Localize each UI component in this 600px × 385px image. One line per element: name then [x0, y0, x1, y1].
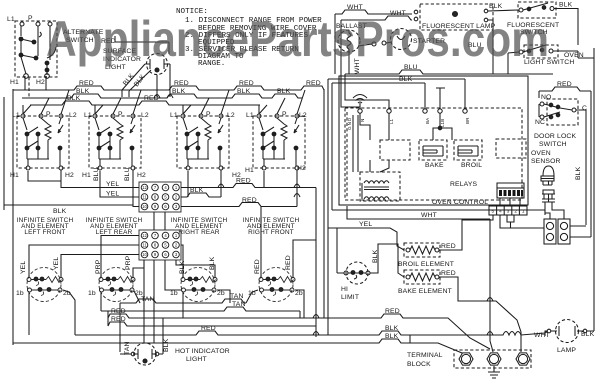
svg-text:RED: RED: [239, 80, 254, 87]
labels E2: [88, 255, 143, 297]
infinite switch SW4 right front: [253, 114, 305, 170]
svg-text:BR: BR: [465, 117, 470, 124]
wire C to right rail: [576, 110, 586, 225]
svg-text:RED: RED: [79, 80, 94, 87]
svg-text:BLK: BLK: [67, 95, 81, 102]
oven sensor probe: [541, 166, 555, 202]
door lock switch contacts: [539, 99, 578, 125]
svg-text:BROIL: BROIL: [461, 162, 482, 169]
wire WHT under board: [332, 210, 545, 219]
label BLK hot light: [163, 338, 170, 352]
svg-text:L2: L2: [299, 112, 307, 119]
svg-text:LAMP: LAMP: [557, 347, 576, 354]
wire BLU bus: [345, 64, 553, 74]
svg-text:BA: BA: [425, 117, 430, 124]
labels E3: [170, 256, 225, 297]
svg-text:YEL: YEL: [359, 221, 372, 228]
svg-text:BLK: BLK: [190, 187, 204, 194]
svg-text:P: P: [118, 111, 123, 118]
wire ballast to starter: [358, 41, 392, 46]
svg-text:BLK: BLK: [53, 208, 67, 215]
svg-text:BLK: BLK: [237, 88, 251, 95]
wire channel y311: [101, 260, 300, 318]
label alternate switch: [63, 29, 104, 44]
svg-text:BLK: BLK: [172, 88, 186, 95]
svg-text:P: P: [282, 111, 287, 118]
svg-text:RED: RED: [306, 80, 321, 87]
wire E1 1b drop: [28, 292, 30, 335]
notice text block: [176, 8, 322, 68]
svg-text:H2: H2: [36, 79, 45, 86]
labels SW1 terminals: [10, 111, 77, 179]
element E2 left rear: [99, 268, 135, 302]
fluorescent lamp F1 dashed box: [420, 4, 496, 30]
wire WHT drop to board: [341, 79, 360, 109]
svg-text:P: P: [206, 111, 211, 118]
wire BLK lower bus to CN1: [4, 205, 133, 215]
svg-text:H1: H1: [245, 167, 254, 174]
connector grid CN2: [139, 230, 181, 260]
alternate switch terminal H1: [10, 74, 28, 86]
svg-text:2: 2: [514, 209, 517, 214]
svg-text:RED: RED: [236, 178, 251, 185]
svg-text:YEL: YEL: [106, 191, 119, 198]
wire sensor to blocks: [545, 202, 564, 219]
board terminal L1B: [438, 109, 445, 127]
wire WHT second: [341, 10, 412, 79]
label broil element: [398, 261, 454, 268]
svg-text:RED: RED: [285, 255, 292, 270]
wire SW4 bus drops: [259, 90, 305, 114]
broil relay K2: [454, 140, 482, 169]
wire E1 left riser YEL: [29, 245, 139, 278]
label surface indicator light: [103, 48, 141, 71]
oven lamp: [545, 320, 594, 343]
svg-text:LIGHT: LIGHT: [186, 356, 207, 363]
label fluorescent switch: [507, 22, 559, 36]
svg-text:BLK: BLK: [575, 166, 582, 180]
wire SW1 H1 jog: [28, 171, 61, 181]
wire E3 left riser BLK: [181, 245, 183, 278]
wire SW3 H1 drop: [187, 171, 189, 197]
svg-text:L1: L1: [170, 112, 178, 119]
svg-text:BLK: BLK: [385, 325, 399, 332]
hot indicator light: [120, 318, 163, 365]
svg-text:1: 1: [522, 209, 525, 214]
svg-text:GND: GND: [347, 117, 352, 130]
svg-text:YEL: YEL: [106, 181, 119, 188]
svg-text:P: P: [28, 15, 33, 22]
transformer T1: [360, 172, 400, 201]
oven light switch dashed box: [524, 45, 558, 58]
connector block CB2: [558, 219, 570, 244]
svg-text:BLK: BLK: [163, 338, 170, 352]
svg-text:NC: NC: [535, 119, 545, 126]
svg-text:YEL: YEL: [20, 261, 27, 274]
svg-text:HI: HI: [341, 286, 348, 293]
labels SW2 terminals: [82, 111, 149, 179]
svg-text:L2: L2: [69, 112, 77, 119]
board terminal L1: [387, 109, 394, 124]
label infinite switch right front: [243, 217, 300, 236]
terminal block lug 2: [487, 353, 501, 365]
svg-text:L2: L2: [141, 112, 149, 119]
oven control dashed box: [345, 108, 522, 200]
starter: [391, 29, 446, 50]
label terminal block: [407, 352, 443, 368]
wire fluorescent switch to right rail BLK: [554, 2, 578, 46]
board terminal N: [358, 109, 365, 122]
wire E1 2b drop: [63, 290, 75, 335]
infinite switch SW1 left front: [17, 114, 69, 170]
wire SW3 bus drops: [183, 90, 229, 114]
label BLK diagonal 1: [122, 72, 136, 87]
wire E2 right riser PRP: [133, 260, 144, 278]
wire RED bus row 1: [13, 80, 324, 90]
label red wire: [101, 38, 116, 45]
svg-text:3: 3: [507, 209, 510, 214]
wire indicator drops join bus: [122, 90, 170, 97]
svg-text:SENSOR: SENSOR: [531, 158, 561, 165]
wire blocks to right rail: [570, 219, 591, 237]
wire feeds into terminal block: [490, 341, 493, 352]
wire SW1 bus drops: [23, 90, 69, 114]
svg-text:H1: H1: [10, 172, 19, 179]
wire BLU drop to L1: [345, 74, 389, 109]
svg-text:H1: H1: [82, 172, 91, 179]
svg-text:H1: H1: [10, 79, 19, 86]
alternate switch terminal L1: [7, 16, 24, 26]
board terminal BA: [423, 109, 430, 124]
svg-text:LEFT FRONT: LEFT FRONT: [24, 229, 65, 236]
svg-text:LEFT REAR: LEFT REAR: [96, 229, 133, 236]
wire TAN channel: [120, 260, 246, 355]
svg-text:BLK: BLK: [372, 249, 379, 263]
label infinite switch left front: [17, 217, 74, 236]
svg-text:BROIL ELEMENT: BROIL ELEMENT: [398, 261, 454, 268]
svg-text:BLU: BLU: [124, 167, 131, 181]
wire SW4 H1 drop: [263, 171, 265, 188]
wire YEL under board: [347, 206, 490, 341]
wire RED channel y318: [108, 308, 490, 349]
svg-text:H2: H2: [297, 165, 306, 172]
wire L1B junction: [433, 113, 452, 140]
wire left rail: [4, 89, 13, 345]
wire edge connector to blocks: [500, 198, 544, 228]
label door lock switch: [534, 133, 576, 148]
svg-text:WHT: WHT: [347, 4, 363, 11]
svg-text:L1: L1: [7, 16, 15, 23]
oven control board outline: [339, 76, 528, 205]
svg-text:TERMINAL: TERMINAL: [407, 352, 443, 359]
wire BLK bus row 2: [22, 88, 302, 98]
wire right rail down to lamp: [578, 48, 594, 331]
svg-text:DOOR LOCK: DOOR LOCK: [534, 133, 576, 140]
board terminal BR: [463, 109, 470, 124]
label hot indicator light: [175, 348, 230, 363]
label WHT vertical: [354, 58, 361, 74]
svg-text:OVEN: OVEN: [531, 150, 551, 157]
wire RED riser right: [323, 89, 325, 318]
broil element R1: [404, 243, 456, 257]
connector grid CN1: [139, 182, 181, 212]
element E4 right front: [259, 268, 295, 302]
label oven light switch: [524, 52, 584, 66]
connector block CB1: [544, 219, 556, 244]
svg-text:YEL: YEL: [53, 257, 60, 270]
wire CN1 row3 to SW4 H2 RED: [181, 170, 297, 207]
wire CN1 row2 to SW3 H2 BLK: [181, 170, 221, 197]
wire lamp to fluorescent switch BLK: [488, 3, 518, 11]
wire E2 1b drop: [100, 292, 102, 311]
svg-text:OVEN CONTROL: OVEN CONTROL: [432, 199, 488, 206]
svg-text:5: 5: [492, 209, 495, 214]
wire to broil element: [328, 228, 404, 250]
svg-text:PRP: PRP: [125, 255, 132, 270]
terminal block lug 1: [459, 353, 473, 365]
svg-text:BLU: BLU: [93, 167, 100, 181]
svg-text:BLK: BLK: [559, 2, 573, 9]
svg-text:RED: RED: [242, 197, 257, 204]
wire grid2 column drops to bottom bus: [144, 292, 183, 343]
label oven sensor: [531, 150, 561, 165]
wire indicator light right lead: [115, 36, 170, 90]
svg-text:BLK: BLK: [489, 3, 503, 10]
svg-text:BLK: BLK: [277, 88, 291, 95]
wire E3 right riser BLK: [176, 260, 215, 278]
alternate switch dashed box: [15, 21, 57, 77]
svg-text:RED: RED: [557, 81, 572, 88]
wire oven light switch leads: [508, 51, 578, 74]
element E1 left front: [27, 268, 63, 302]
svg-text:RED: RED: [385, 308, 400, 315]
svg-text:NO: NO: [541, 94, 552, 101]
bake element R2: [404, 270, 456, 284]
labels E4: [248, 255, 303, 297]
svg-text:WHT: WHT: [534, 332, 550, 339]
svg-text:RED: RED: [201, 325, 216, 332]
label OVEN CONTROL: [432, 199, 488, 206]
svg-text:WHT: WHT: [421, 212, 437, 219]
svg-text:RED: RED: [174, 80, 189, 87]
ground symbol: [353, 95, 367, 110]
wire BLK bus row 3: [30, 95, 260, 105]
wire SW2 H1 to CN1 row2: [93, 167, 139, 197]
wire E3 1b drop: [165, 260, 181, 290]
infinite switch SW3 right rear: [177, 114, 229, 170]
svg-text:1b: 1b: [170, 290, 178, 297]
wire RED long channel y335: [75, 325, 497, 343]
terminal block lug 3: [516, 353, 530, 365]
wire crossing humps: [154, 95, 493, 336]
alternate switch terminal P: [28, 15, 40, 26]
svg-text:AppliancePartsPros.com: AppliancePartsPros.com: [46, 11, 549, 67]
wire E4 left riser RED: [260, 207, 262, 278]
wire E2 left riser PRP: [101, 236, 139, 278]
labels SW3 terminals: [170, 111, 254, 179]
label RELAYS: [450, 181, 478, 188]
label hi limit: [341, 286, 359, 301]
relay dashed box empty: [380, 140, 410, 160]
fluorescent lamp terminals right: [484, 9, 488, 22]
svg-text:P: P: [46, 111, 51, 118]
wire E4 1b TAN link: [230, 290, 258, 308]
fluorescent lamp terminals left: [414, 10, 418, 21]
svg-text:HOT INDICATOR: HOT INDICATOR: [175, 348, 230, 355]
wire bake RED return: [439, 277, 521, 352]
wire lamp lower right BLU drop: [468, 20, 493, 74]
svg-text:L1: L1: [389, 118, 394, 124]
wire N L1 into board: [360, 113, 389, 140]
alternate switch contacts: [19, 26, 56, 75]
wire CN1 to CN2 link: [154, 212, 165, 230]
svg-text:RED: RED: [111, 308, 126, 315]
wire SW2 bus drops: [95, 90, 141, 114]
svg-text:4: 4: [499, 209, 502, 214]
wire WHT top: [335, 4, 412, 74]
labels door lock NO NC C: [535, 94, 587, 126]
label lamp: [557, 331, 595, 354]
svg-text:RELAYS: RELAYS: [450, 181, 478, 188]
labels E1: [16, 257, 71, 297]
wire broil RED return: [439, 215, 493, 250]
svg-text:BLK: BLK: [399, 76, 413, 83]
dashed box right on board: [496, 139, 526, 158]
svg-text:BLOCK: BLOCK: [407, 361, 431, 368]
element E3 right rear: [181, 268, 217, 302]
label BLK diagonal 2: [133, 73, 147, 88]
wire alternate switch stub: [25, 76, 46, 98]
hi-limit switch S5: [337, 228, 370, 284]
alternate switch terminal H2: [36, 74, 49, 86]
wire bus y79 to BR: [328, 79, 465, 335]
label infinite switch right rear: [171, 217, 228, 236]
board pin connector P1: [497, 183, 524, 198]
svg-text:LIMIT: LIMIT: [341, 294, 359, 301]
fluorescent switch dashed box: [518, 2, 556, 18]
svg-text:L1: L1: [84, 112, 92, 119]
label bake element: [398, 288, 452, 295]
surface indicator light: [145, 54, 170, 75]
ballast B1: [336, 23, 367, 74]
fluorescent switch contacts: [519, 3, 554, 12]
wire E2 2b to TAN: [134, 291, 155, 303]
wire E1 right riser YEL: [61, 255, 139, 278]
svg-text:BAKE ELEMENT: BAKE ELEMENT: [398, 288, 452, 295]
wire SW1 H2 to CN1 row1: [61, 170, 139, 188]
svg-text:BAKE: BAKE: [425, 162, 444, 169]
wire CN1 row1 to right riser RED: [181, 178, 316, 338]
svg-text:2b: 2b: [295, 290, 303, 297]
svg-text:L1B: L1B: [440, 119, 445, 127]
bake relay K1: [419, 140, 447, 169]
svg-text:BLK: BLK: [581, 331, 595, 338]
svg-text:L1: L1: [246, 112, 254, 119]
alternate switch terminal top right: [48, 22, 52, 26]
oven light switch contacts: [519, 45, 553, 54]
label GND: [347, 117, 352, 130]
svg-text:RIGHT REAR: RIGHT REAR: [178, 229, 219, 236]
svg-text:BLK: BLK: [385, 333, 399, 340]
svg-text:RED: RED: [441, 243, 456, 250]
label infinite switch left rear: [86, 217, 143, 236]
svg-text:1b: 1b: [88, 290, 96, 297]
wire hi limit to bake BLK: [370, 244, 404, 277]
labels SW4 terminals: [246, 111, 307, 172]
label BLK right rail: [575, 166, 582, 180]
svg-text:H2: H2: [65, 172, 74, 179]
svg-text:H2: H2: [137, 172, 146, 179]
svg-text:L1: L1: [12, 112, 20, 119]
wire E3 2b: [217, 290, 230, 303]
wire E4 2b drop: [295, 290, 304, 318]
svg-text:BLK: BLK: [76, 88, 90, 95]
wire BLK bottom channel y343: [13, 333, 462, 353]
svg-text:RED: RED: [441, 270, 456, 277]
svg-text:RIGHT FRONT: RIGHT FRONT: [248, 229, 294, 236]
ground at terminal block: [488, 366, 500, 378]
svg-text:N: N: [360, 119, 365, 122]
svg-text:1b: 1b: [16, 290, 24, 297]
svg-text:2b: 2b: [217, 290, 225, 297]
wire bus y83 to BA: [332, 76, 425, 210]
wire WHT to lamp with humps: [497, 331, 550, 339]
wire L1B feed: [436, 88, 445, 109]
wire BLK diagonals to indicator light: [122, 64, 151, 91]
wire RED door lock top: [539, 81, 591, 219]
wire board internal verticals: [347, 112, 389, 198]
board edge connector cells 5 4 3 2 1: [489, 206, 527, 215]
wire SW2 H2 to CN1 row3: [124, 167, 139, 206]
svg-text:SWITCH: SWITCH: [539, 141, 567, 148]
wire RED channel y326: [108, 316, 316, 326]
infinite switch SW2 left rear: [89, 114, 141, 170]
svg-text:RED: RED: [254, 259, 261, 274]
svg-text:L2: L2: [227, 112, 235, 119]
terminal block TB1: [454, 350, 531, 368]
svg-text:RED: RED: [111, 316, 126, 323]
wire E4 right riser RED: [293, 240, 316, 278]
